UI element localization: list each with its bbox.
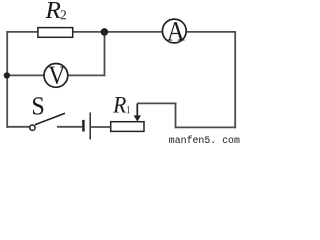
wire step vertical: [175, 103, 177, 129]
voltmeter U-V circle: [44, 64, 68, 88]
wire bottom left to switch: [6, 126, 30, 128]
wire bottom right horizontal: [176, 126, 237, 128]
wire voltmeter branch horizontal: [6, 74, 104, 76]
label R1: [113, 97, 126, 113]
switch S pivot circle: [30, 125, 35, 130]
switch S blade: [35, 113, 65, 125]
battery positive plate (long thin): [89, 112, 91, 139]
battery negative plate (short thick): [82, 120, 85, 132]
wire left vertical: [6, 31, 8, 128]
junction dot left: [4, 72, 10, 78]
junction dot top: [101, 28, 109, 36]
resistor R2 body: [38, 28, 73, 38]
svg-text:manfen5. com: manfen5. com: [169, 135, 240, 146]
ammeter U-A circle: [162, 19, 186, 43]
wire step top horizontal: [137, 102, 176, 104]
resistor R1 body (rheostat): [111, 122, 144, 132]
voltmeter letter V: [49, 67, 65, 85]
wire top horizontal: [6, 31, 236, 33]
wire right vertical: [234, 31, 236, 128]
wire battery to R1: [91, 126, 111, 128]
rheostat slider arrow: [136, 103, 138, 116]
label S: [33, 97, 43, 114]
label R2: [45, 2, 60, 18]
wire switch to battery: [57, 126, 82, 128]
ammeter letter A: [167, 22, 185, 40]
wire voltmeter branch vertical: [104, 32, 106, 76]
